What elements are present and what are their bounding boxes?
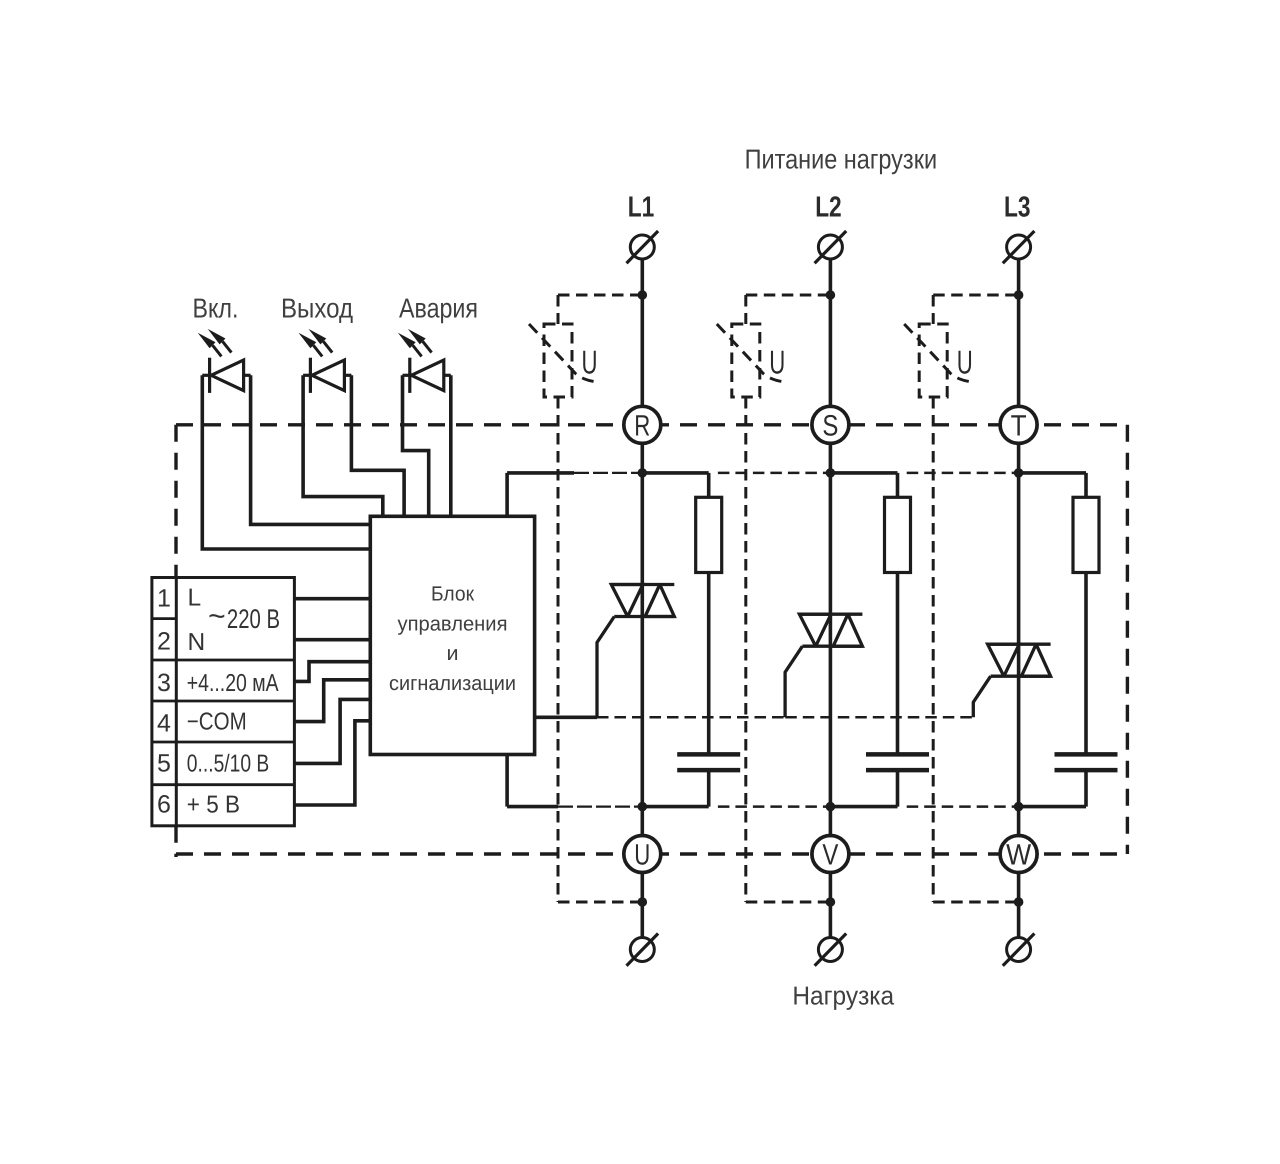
- svg-text:Блок: Блок: [431, 583, 475, 606]
- svg-text:S: S: [822, 410, 838, 443]
- svg-text:U: U: [769, 344, 785, 381]
- svg-text:L3: L3: [1004, 192, 1031, 224]
- svg-text:~: ~: [208, 600, 226, 633]
- svg-text:U: U: [582, 344, 598, 381]
- svg-text:Выход: Выход: [281, 293, 353, 324]
- svg-text:Вкл.: Вкл.: [193, 293, 239, 324]
- svg-text:N: N: [188, 629, 206, 656]
- svg-text:L: L: [188, 585, 202, 612]
- svg-text:+4...20 мА: +4...20 мА: [187, 670, 279, 697]
- svg-text:U: U: [634, 839, 650, 872]
- svg-text:сигнализации: сигнализации: [389, 672, 516, 695]
- svg-text:220 В: 220 В: [227, 604, 280, 634]
- svg-text:U: U: [957, 344, 973, 381]
- svg-text:L2: L2: [815, 192, 842, 224]
- svg-text:3: 3: [157, 669, 171, 697]
- svg-text:4: 4: [157, 710, 171, 738]
- svg-text:6: 6: [157, 791, 171, 819]
- svg-text:5: 5: [157, 749, 171, 777]
- svg-text:Нагрузка: Нагрузка: [792, 981, 894, 1011]
- svg-text:Питание нагрузки: Питание нагрузки: [745, 144, 938, 175]
- svg-text:R: R: [634, 410, 650, 443]
- svg-text:T: T: [1011, 410, 1027, 443]
- svg-text:Авария: Авария: [399, 293, 478, 324]
- svg-text:и: и: [447, 642, 459, 665]
- svg-text:управления: управления: [398, 612, 508, 635]
- svg-text:+ 5 В: + 5 В: [187, 792, 240, 819]
- svg-text:W: W: [1006, 839, 1031, 872]
- svg-text:1: 1: [157, 584, 171, 612]
- svg-text:−COM: −COM: [187, 709, 247, 736]
- svg-text:0...5/10 В: 0...5/10 В: [187, 750, 269, 777]
- svg-text:L1: L1: [628, 192, 655, 224]
- svg-text:V: V: [822, 839, 838, 872]
- svg-text:2: 2: [157, 628, 171, 656]
